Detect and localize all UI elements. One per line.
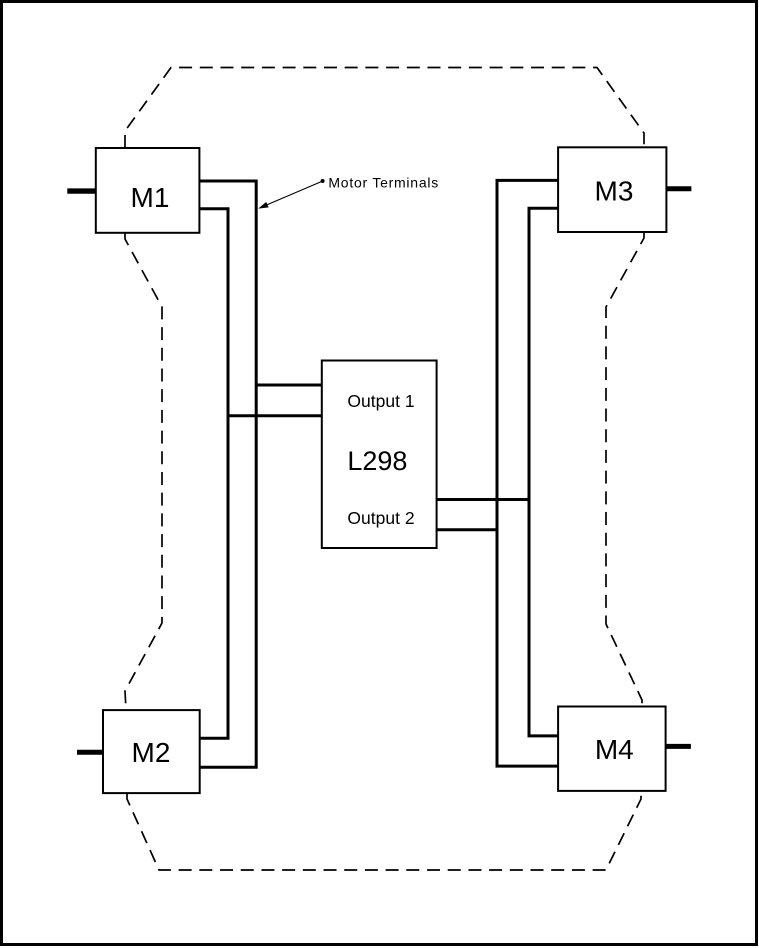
wire branch into L298 Output1 upper <box>256 384 322 387</box>
svg-text:Output 2: Output 2 <box>347 508 414 528</box>
wire branch from L298 Output2 lower <box>436 528 497 531</box>
chassis dashed outline: right waist from M3 to M4 <box>606 232 644 707</box>
motor M3 box <box>558 147 666 232</box>
L298 driver box U1 <box>322 361 437 549</box>
motor axle M1 <box>67 188 96 193</box>
motor M1 box <box>96 148 200 233</box>
svg-text:M2: M2 <box>132 737 171 768</box>
svg-text:L298: L298 <box>347 446 407 476</box>
motor M4 box <box>558 707 666 791</box>
wire M1 upper terminal down to M2 lower terminal (outer left vertical) <box>199 181 256 767</box>
svg-text:Output 1: Output 1 <box>347 391 414 411</box>
chassis dashed outline: bottom arc from M2 to M4 <box>127 791 641 870</box>
motor axle M3 <box>666 186 691 191</box>
svg-text:M3: M3 <box>595 176 634 207</box>
chassis dashed outline: top arc from M1 to M3 <box>125 68 644 149</box>
chassis dashed outline: left waist from M1 to M2 <box>125 233 162 710</box>
motor M2 box <box>103 710 200 793</box>
motor axle M2 <box>77 750 104 755</box>
annotation arrowhead <box>258 202 268 209</box>
svg-text:Motor Terminals: Motor Terminals <box>328 174 439 190</box>
wire M3 lower terminal down to M4 upper terminal (inner right vertical) <box>529 208 558 736</box>
wire branch from L298 Output2 upper <box>436 498 529 501</box>
annotation bullet node <box>321 179 325 183</box>
svg-text:M1: M1 <box>131 182 170 213</box>
svg-text:M4: M4 <box>595 734 634 765</box>
wire M3 upper terminal down to M4 lower terminal (outer right vertical) <box>497 180 558 766</box>
wire branch into L298 Output1 lower <box>228 414 322 417</box>
annotation arrow line <box>267 182 322 205</box>
motor axle M4 <box>666 744 691 749</box>
wire M1 lower terminal down to M2 upper terminal (inner left vertical) <box>199 209 228 738</box>
